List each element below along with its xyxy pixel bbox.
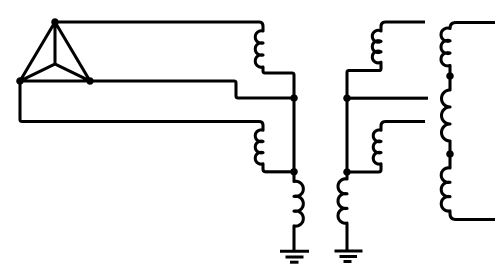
junction M1 (343, 94, 351, 102)
inductor L7 section 3 (441, 154, 456, 220)
inductor L3 (grounding coil, loops right) (294, 172, 303, 251)
inductor L4 (372, 22, 386, 71)
wire (right winding bottom lead) (456, 218, 495, 221)
tap node T1 (446, 72, 454, 80)
ground G1 (280, 251, 309, 262)
junction M2 (343, 168, 351, 176)
wire (L4 bottom to junction M1) (347, 71, 379, 99)
wire (J1 to J2 trunk) (292, 98, 295, 172)
ground G2 (335, 251, 363, 262)
inductor L2 (255, 122, 265, 172)
delta winding symbol (triangle) (20, 22, 90, 81)
node C (delta bottom-right vertex) (86, 77, 94, 85)
junction J2 (290, 168, 298, 176)
tap node T2 (446, 150, 454, 158)
wire (middle phase lead, top) (386, 20, 425, 23)
wire (node B to L2 top) (20, 81, 259, 122)
inductor L1 (255, 22, 265, 73)
inductor L5 (373, 122, 386, 173)
inductor L7 section 2 (442, 76, 451, 154)
wire (node A to L1 top) (55, 20, 259, 23)
delta internal spokes to center node (20, 22, 90, 81)
junction J1 (290, 94, 298, 102)
wire (middle phase lead, L5 top) (386, 120, 425, 123)
wire (L5 bottom to junction M2) (347, 170, 379, 173)
node B (delta bottom-left vertex) (16, 77, 24, 85)
wire (junction M1 lead, right) (347, 97, 428, 100)
wire (L1 bottom to junction J1) (265, 73, 294, 98)
wire (L2 bottom to junction J2) (266, 170, 295, 173)
inductor L7 (tapped winding, section 1) (441, 23, 456, 77)
wire (right winding top lead) (456, 21, 495, 24)
wire (node C to junction J1) (90, 81, 294, 98)
inductor L6 (grounding coil, loops left) (338, 172, 347, 251)
wire (M1 to M2 trunk) (345, 98, 348, 172)
node A (delta top vertex) (51, 18, 59, 26)
